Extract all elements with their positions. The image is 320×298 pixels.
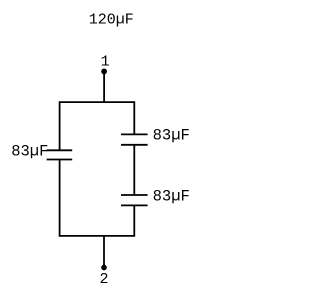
wire node1 stub [103,71,105,102]
node 1 terminal dot [101,69,107,75]
capacitor C1 83µF left plates [47,150,73,159]
wire right middle [133,145,135,195]
node 2 terminal dot [101,265,107,271]
wire left lower [59,160,61,237]
svg-text:1: 1 [101,53,110,70]
wire right upper [133,101,135,134]
capacitor C3 83µF right-bottom plates [121,195,148,205]
wire bottom [59,235,135,237]
svg-text:83µF: 83µF [153,187,190,205]
svg-text:120µF: 120µF [89,11,134,28]
wire node2 stub [103,236,105,268]
wire top [59,101,135,103]
wire left upper [59,101,61,150]
capacitor C2 83µF right-top plates [121,134,148,144]
wire right lower [133,205,135,236]
svg-text:83µF: 83µF [153,127,190,145]
svg-text:2: 2 [100,271,109,288]
svg-text:83µF: 83µF [11,143,48,161]
